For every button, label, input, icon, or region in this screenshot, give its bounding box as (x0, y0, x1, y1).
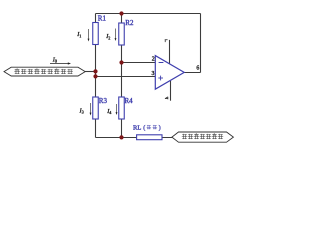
svg-text:R3: R3 (99, 97, 108, 105)
svg-text:2: 2 (152, 57, 155, 63)
svg-text:(: ( (143, 125, 145, 132)
svg-text:6: 6 (196, 65, 199, 71)
svg-text:): ) (159, 125, 161, 132)
svg-text:3: 3 (152, 71, 155, 77)
svg-text:R2: R2 (125, 19, 134, 27)
svg-text:R1: R1 (98, 14, 107, 22)
svg-text:RL: RL (133, 124, 141, 131)
svg-text:R4: R4 (125, 97, 134, 105)
